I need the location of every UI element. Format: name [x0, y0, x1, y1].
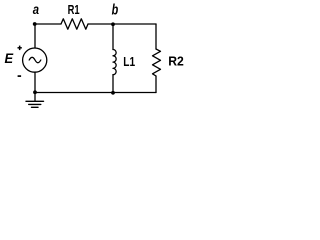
wire: ground stub [34, 93, 36, 102]
wire: top, R1 to right corner [88, 23, 156, 25]
wire: top, node a to R1 [35, 23, 61, 25]
svg-text:b: b [112, 3, 119, 19]
junction dot bottom-middle [111, 91, 115, 95]
ground [26, 101, 44, 107]
inductor L1 [113, 50, 116, 75]
polarity minus [18, 75, 22, 77]
svg-text:L1: L1 [123, 54, 135, 69]
svg-text:R2: R2 [168, 54, 184, 69]
resistor R2 [153, 49, 161, 76]
wire: L1 branch upper (node b down) [112, 24, 114, 50]
wire: left branch lower (source to bottom) [34, 72, 36, 93]
wire: L1 branch lower [112, 75, 114, 93]
wire: right branch upper [155, 24, 157, 49]
wire: bottom [35, 92, 156, 94]
node b (junction dot) [111, 22, 115, 26]
junction dot bottom-left [33, 90, 37, 94]
node a (junction dot) [33, 22, 37, 26]
polarity plus [18, 46, 22, 51]
sine symbol inside source [29, 57, 41, 62]
source U1 (AC voltage source circle) [23, 48, 47, 72]
wire: right branch lower [155, 76, 157, 93]
resistor R1 [61, 19, 88, 29]
svg-text:R1: R1 [68, 2, 80, 17]
svg-text:a: a [33, 1, 39, 17]
wire: left branch upper (node a to source) [34, 24, 36, 48]
svg-text:E: E [5, 51, 15, 66]
